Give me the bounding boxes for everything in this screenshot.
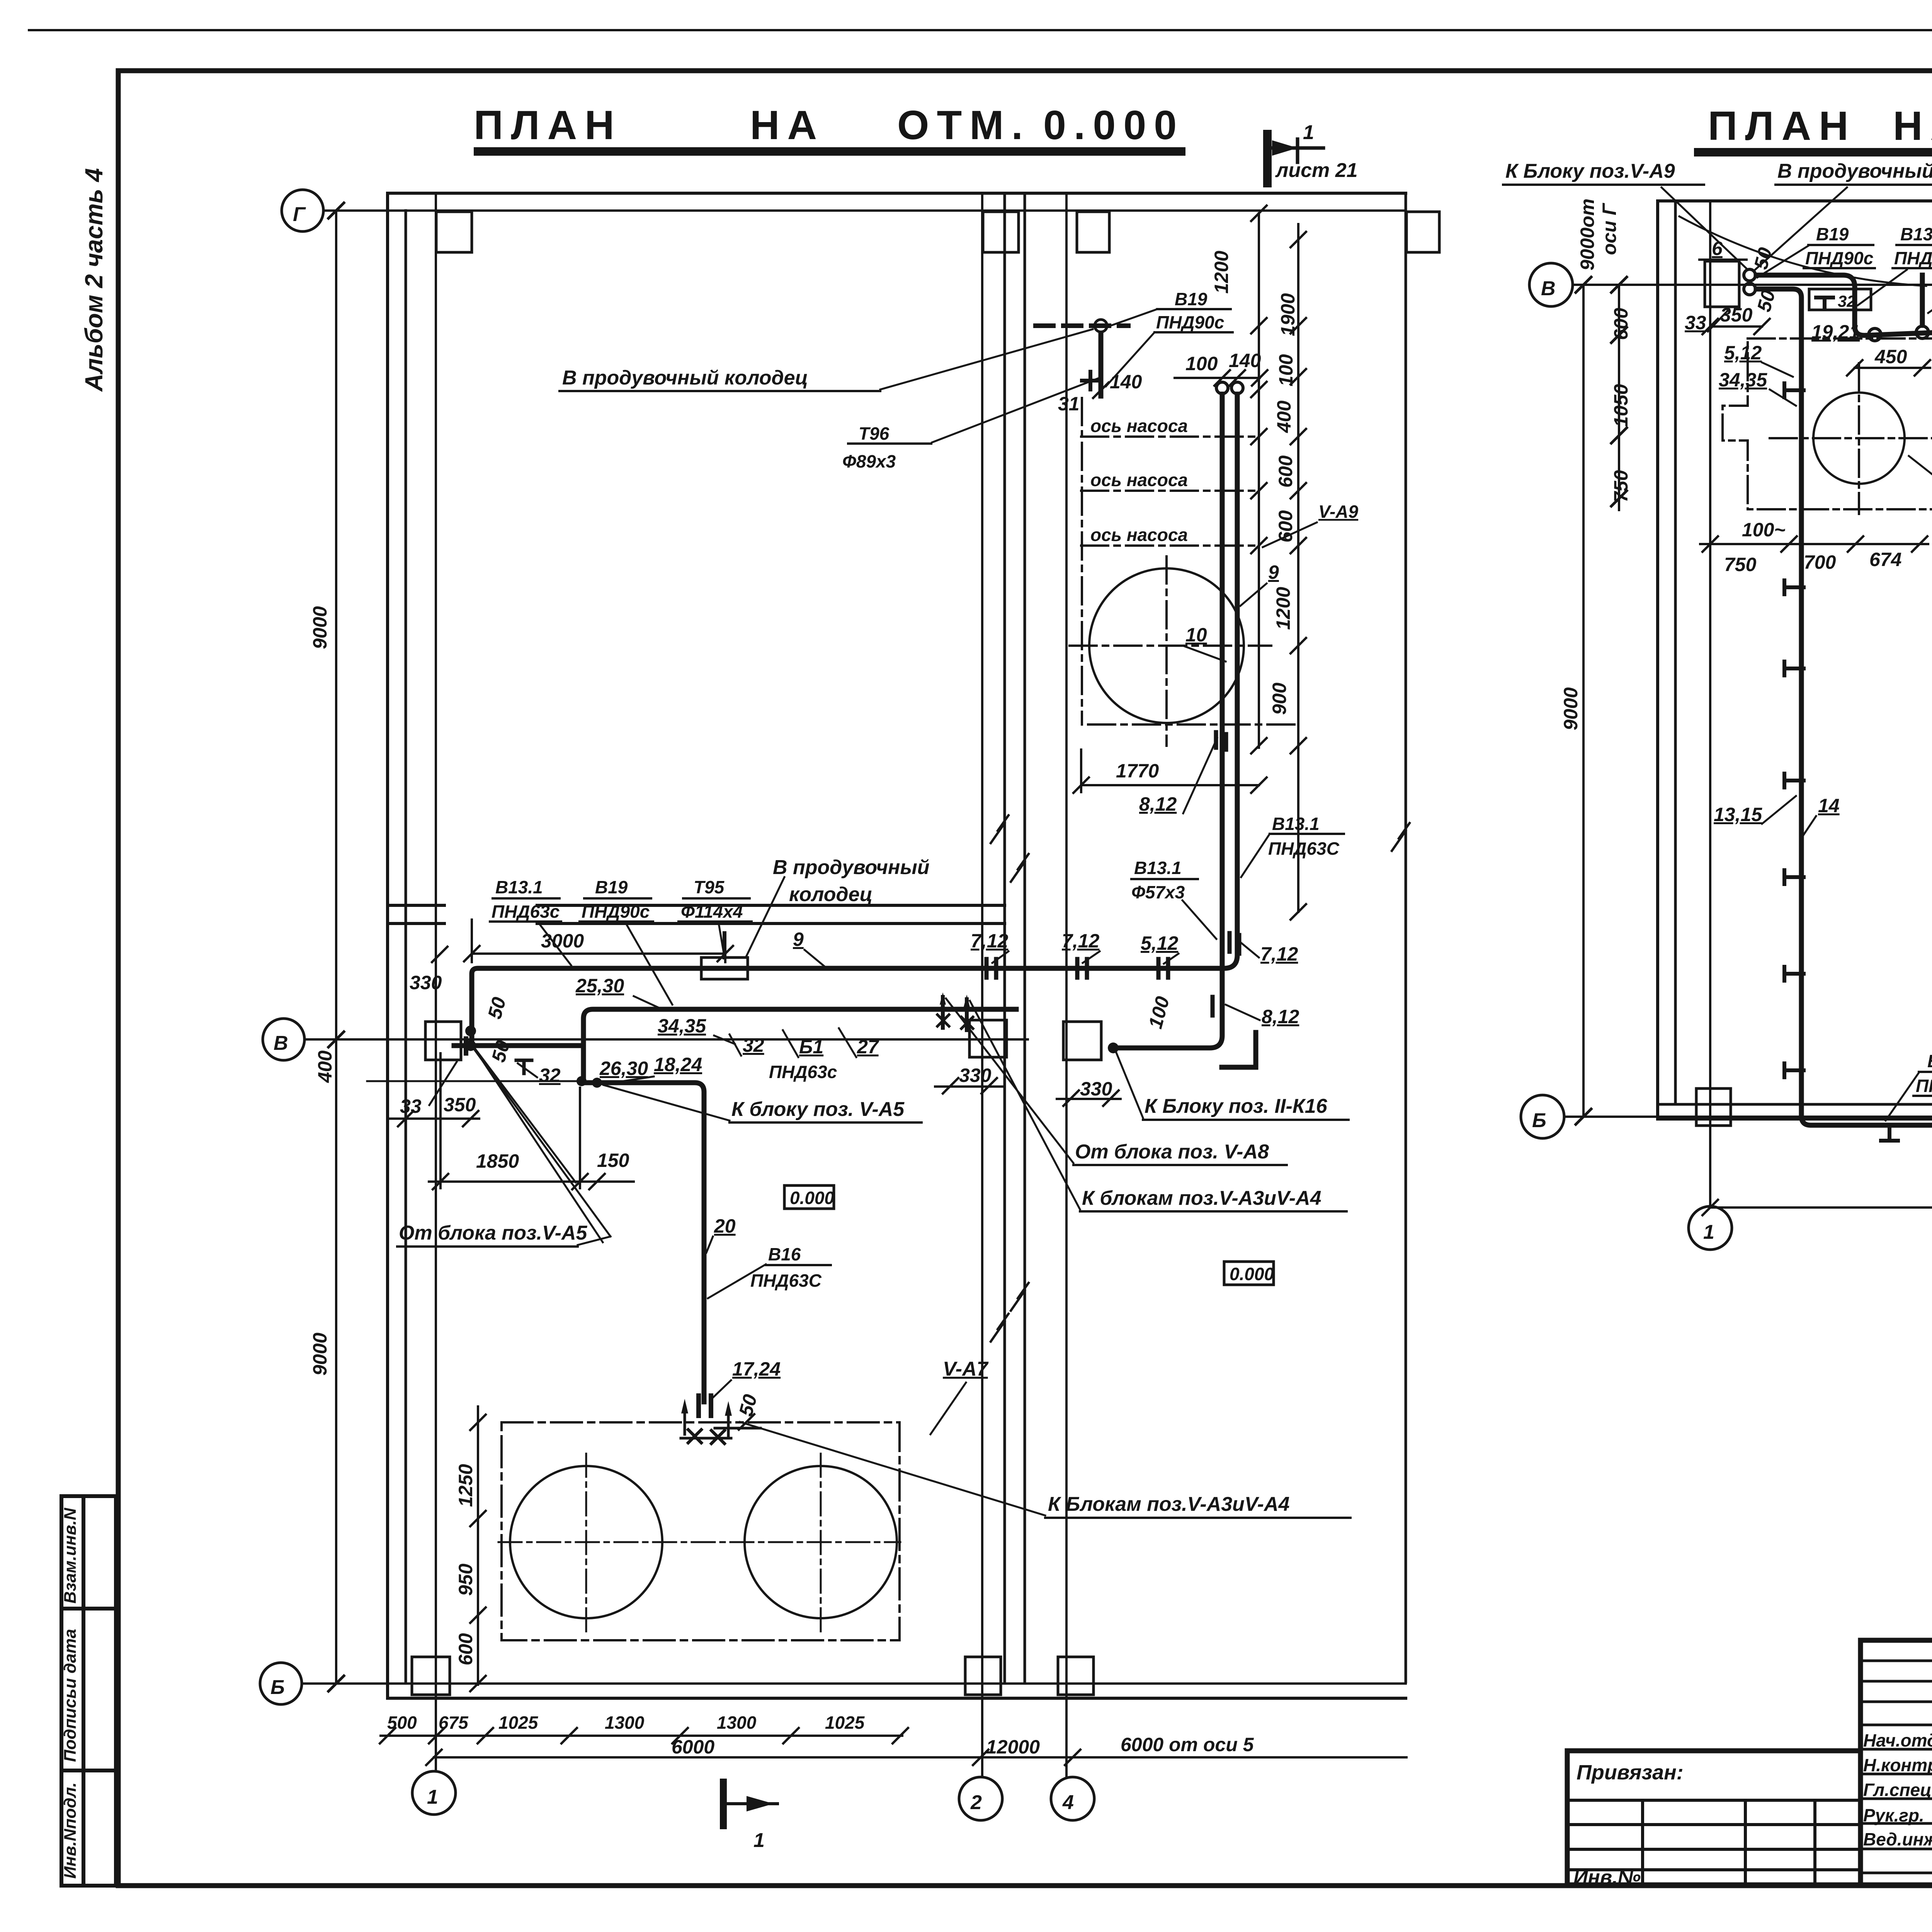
svg-text:26,30: 26,30 (599, 1058, 648, 1079)
svg-text:К блокам поз.V-А3иV-А4: К блокам поз.V-А3иV-А4 (1082, 1187, 1321, 1209)
svg-text:750: 750 (1724, 554, 1757, 575)
svg-text:5,12: 5,12 (1724, 342, 1762, 364)
axis Г line (323, 209, 1406, 212)
pump pipe support ticks (1216, 732, 1226, 750)
axis circle В (263, 1019, 304, 1060)
pump circle (1089, 568, 1244, 723)
svg-text:К Блокам поз.V-А3иV-А4: К Блокам поз.V-А3иV-А4 (1048, 1493, 1290, 1515)
svg-text:9000: 9000 (309, 1333, 331, 1376)
pump dim lines right (1251, 206, 1306, 920)
Т32 boxed symbol (1809, 289, 1871, 310)
svg-text:В продувочный колодец: В продувочный колодец (1777, 160, 1932, 182)
LEFT PLAN PLACEHOLDER (260, 190, 1439, 1852)
plan right edge (1405, 193, 1407, 1682)
svg-text:Н.контр.: Н.контр. (1863, 1755, 1932, 1775)
tank circles (510, 1466, 662, 1618)
svg-text:Инв.№: Инв.№ (1573, 1866, 1641, 1889)
svg-text:8,12: 8,12 (1262, 1006, 1299, 1027)
svg-text:330: 330 (959, 1065, 992, 1086)
supports on B14 vertical (1784, 383, 1804, 1077)
small Т mark (516, 1060, 532, 1073)
svg-text:150: 150 (597, 1150, 629, 1171)
9000 dim line В-Б (1582, 285, 1585, 1117)
left dim column 600/1050/750 (1618, 285, 1620, 510)
svg-text:18,24: 18,24 (654, 1054, 702, 1075)
svg-text:450: 450 (1874, 346, 1907, 367)
svg-text:Подписьи дата: Подписьи дата (61, 1629, 80, 1762)
signature table rows (1861, 1661, 1932, 1873)
svg-text:600: 600 (1610, 308, 1632, 340)
break marks (1392, 823, 1410, 851)
svg-text:ПЛАН: ПЛАН (1708, 103, 1856, 149)
6000 12000 bottom dim (1702, 1200, 1932, 1215)
axis Б line (1564, 1116, 1932, 1118)
svg-text:ПНД90с: ПНД90с (1156, 312, 1224, 332)
svg-text:ОТМ.: ОТМ. (897, 102, 1031, 148)
svg-text:7,12: 7,12 (971, 930, 1009, 952)
svg-text:Рук.гр.: Рук.гр. (1863, 1805, 1924, 1825)
svg-text:1: 1 (1303, 121, 1314, 144)
svg-text:Ф57х3: Ф57х3 (1131, 882, 1185, 902)
left wall (386, 193, 389, 1698)
columns В row (425, 1022, 461, 1060)
svg-text:Ф114х4: Ф114х4 (681, 901, 743, 922)
axis 1 vertical (435, 193, 437, 1770)
svg-text:1200: 1200 (1272, 587, 1294, 630)
svg-text:оси Г: оси Г (1599, 202, 1620, 255)
svg-text:9: 9 (793, 929, 804, 950)
svg-text:9000от: 9000от (1577, 199, 1598, 270)
top wall (388, 192, 1406, 195)
axis circle 4 (1051, 1777, 1094, 1820)
svg-text:13,15: 13,15 (1714, 804, 1762, 825)
axis circle В (1529, 263, 1573, 306)
svg-text:6: 6 (1712, 238, 1723, 259)
svg-text:К блоку поз. V-А5: К блоку поз. V-А5 (731, 1098, 905, 1121)
В16 bottom: arrows and х marks (681, 1406, 760, 1438)
svg-text:1300: 1300 (605, 1713, 645, 1733)
boiler V-А5 chain outline (1723, 338, 1932, 514)
svg-text:700: 700 (1804, 551, 1836, 573)
svg-text:1: 1 (753, 1829, 765, 1852)
svg-text:17,24: 17,24 (732, 1358, 781, 1380)
svg-text:НА: НА (1893, 103, 1932, 149)
svg-text:400: 400 (1273, 400, 1295, 433)
bottom wall (388, 1697, 1406, 1700)
svg-text:350: 350 (1720, 304, 1753, 326)
svg-text:Т96: Т96 (859, 423, 889, 444)
svg-text:Инв.Nподл.: Инв.Nподл. (61, 1782, 80, 1879)
pump axes dash-dot (1070, 398, 1298, 746)
svg-text:400: 400 (314, 1050, 336, 1083)
svg-text:В: В (1541, 277, 1556, 300)
svg-text:32: 32 (539, 1065, 561, 1086)
svg-text:ПНД63С: ПНД63С (1268, 838, 1340, 859)
svg-text:600: 600 (455, 1633, 476, 1665)
svg-text:1: 1 (427, 1786, 438, 1808)
axis 2 vertical (981, 193, 983, 1776)
svg-text:В продувочный колодец: В продувочный колодец (562, 367, 808, 389)
svg-text:ось насоса: ось насоса (1090, 470, 1188, 490)
0.000 box 2 (1224, 1262, 1274, 1285)
svg-text:В: В (274, 1032, 288, 1054)
stamp outer (1861, 1640, 1932, 1885)
svg-text:ПНД63С: ПНД63С (750, 1270, 822, 1291)
svg-text:Б: Б (1532, 1109, 1546, 1132)
svg-text:9000: 9000 (309, 606, 331, 649)
axis В line (1573, 284, 1932, 286)
svg-text:10: 10 (1185, 624, 1207, 646)
svg-text:ПНД63С: ПНД63С (1894, 248, 1932, 268)
svg-text:0.000: 0.000 (1043, 102, 1184, 148)
valve arrows to upper blocks (943, 997, 967, 1030)
pipe H0 (454, 1043, 583, 1048)
svg-text:1300: 1300 (717, 1713, 757, 1733)
svg-text:Гл.спец.: Гл.спец. (1863, 1780, 1932, 1800)
svg-text:В13.1: В13.1 (1272, 814, 1320, 834)
left margin stamp boxes (61, 1496, 116, 1886)
top wall (1658, 199, 1932, 202)
pipe H4 + V3 (В16) (582, 1083, 704, 1402)
svg-text:900: 900 (1269, 682, 1290, 715)
svg-text:V-А9: V-А9 (1318, 502, 1359, 522)
svg-text:675: 675 (439, 1713, 469, 1733)
svg-text:ПНД63с: ПНД63с (769, 1062, 837, 1082)
svg-text:32: 32 (1838, 292, 1856, 310)
pipe fittings circles (1744, 269, 1755, 281)
junction dots V2 (577, 1076, 587, 1086)
svg-text:НА: НА (750, 102, 825, 148)
svg-text:ПЛАН: ПЛАН (474, 102, 622, 148)
svg-text:1025: 1025 (498, 1713, 539, 1733)
svg-text:34,35: 34,35 (658, 1015, 706, 1037)
svg-text:В13.1: В13.1 (1900, 224, 1932, 244)
svg-text:Т95: Т95 (694, 877, 725, 897)
bottom wall double (1658, 1103, 1932, 1106)
svg-text:140: 140 (1110, 371, 1142, 393)
support ticks on H1 (986, 959, 996, 978)
tank chain rect (502, 1422, 900, 1640)
svg-text:ПНД63с: ПНД63с (492, 901, 560, 922)
svg-text:ось насоса: ось насоса (1090, 416, 1188, 436)
svg-text:Нач.отд.: Нач.отд. (1863, 1730, 1932, 1750)
axis circle 2 (959, 1777, 1002, 1820)
svg-text:2: 2 (970, 1791, 982, 1814)
svg-text:В19: В19 (595, 877, 628, 897)
main pipe H1 (472, 968, 1213, 1043)
axis circle 1 (1689, 1206, 1732, 1250)
left 9000 dim line (335, 211, 337, 1684)
svg-text:лист 21: лист 21 (1275, 159, 1358, 182)
pump riser pipes (9 / 10) (1216, 382, 1228, 394)
svg-text:В14: В14 (1927, 1051, 1932, 1071)
riser dot at column (1108, 1043, 1119, 1053)
svg-text:ПНД90С: ПНД90С (1916, 1076, 1932, 1096)
svg-text:7,12: 7,12 (1260, 943, 1298, 965)
svg-text:950: 950 (455, 1563, 476, 1596)
svg-text:33: 33 (1685, 312, 1706, 333)
svg-text:5,12: 5,12 (1141, 932, 1179, 954)
svg-text:34,35: 34,35 (1719, 369, 1767, 391)
svg-text:1850: 1850 (476, 1150, 519, 1172)
svg-text:0.000: 0.000 (790, 1188, 835, 1208)
junction dot В axis (465, 1026, 476, 1036)
svg-text:6000: 6000 (672, 1736, 714, 1758)
bottom section mark (720, 1782, 727, 1826)
support ticks on left pump pipe (1213, 997, 1222, 1017)
svg-text:К Блоку поз.V-А9: К Блоку поз.V-А9 (1505, 160, 1675, 182)
svg-text:27: 27 (857, 1036, 879, 1058)
svg-text:колодец: колодец (789, 883, 872, 906)
svg-text:674: 674 (1869, 549, 1901, 570)
axis В line (304, 1038, 1028, 1041)
axis circle Б (260, 1663, 302, 1704)
axis circle 1 (412, 1771, 456, 1815)
pipe B14 long run (1756, 289, 1932, 1125)
short riser with circles (1920, 275, 1925, 325)
svg-text:От блока поз. V-А8: От блока поз. V-А8 (1075, 1141, 1269, 1163)
svg-text:ось насоса: ось насоса (1090, 525, 1188, 545)
axis 4 vertical (1065, 193, 1068, 1776)
svg-text:600: 600 (1275, 455, 1296, 488)
columns Б row (412, 1657, 450, 1695)
TITLE BLOCK PLACEHOLDER (1567, 1640, 1932, 1923)
svg-text:В13.1: В13.1 (1134, 858, 1182, 878)
svg-text:350: 350 (444, 1094, 476, 1116)
svg-text:20: 20 (714, 1215, 736, 1237)
svg-text:14: 14 (1818, 795, 1840, 816)
svg-text:1770: 1770 (1116, 760, 1159, 782)
annex Привязан box (1567, 1751, 1861, 1885)
0.000 box 1 (784, 1185, 834, 1209)
axis circle Б (1521, 1095, 1564, 1138)
svg-text:31: 31 (1058, 393, 1080, 415)
1770 dim (1073, 750, 1267, 793)
1250 950 600 dims (470, 1406, 486, 1691)
svg-text:100~: 100~ (1742, 519, 1786, 541)
svg-text:В19: В19 (1175, 289, 1207, 309)
svg-text:В13.1: В13.1 (495, 877, 543, 897)
В19 dashed pipe to blowdown well (1036, 323, 1128, 328)
svg-text:1025: 1025 (825, 1713, 865, 1733)
support ticks on pump pipe right (1230, 933, 1239, 954)
1850 150 dims (429, 1053, 634, 1189)
bottom dim chain (380, 1728, 908, 1743)
svg-text:В продувочный: В продувочный (773, 856, 930, 879)
svg-text:1200: 1200 (1211, 251, 1232, 294)
svg-text:6000 от оси 5: 6000 от оси 5 (1121, 1734, 1254, 1755)
divider wall (1003, 193, 1006, 1682)
svg-text:Привязан:: Привязан: (1577, 1761, 1684, 1784)
svg-text:1250: 1250 (455, 1464, 476, 1507)
svg-text:От блока поз.V-А5: От блока поз.V-А5 (399, 1222, 588, 1244)
svg-text:Альбом 2 часть 4: Альбом 2 часть 4 (80, 168, 108, 392)
leader curves from labels (1679, 216, 1926, 286)
dim 450 (1847, 360, 1930, 376)
svg-text:100: 100 (1185, 353, 1218, 374)
svg-text:25,30: 25,30 (575, 975, 624, 997)
svg-text:32: 32 (743, 1034, 764, 1056)
pipe B19/B13.1 thick top (1756, 275, 1932, 350)
left wall double (1656, 201, 1659, 1119)
axis circle Г (282, 190, 323, 231)
svg-text:9: 9 (1268, 561, 1279, 583)
svg-text:ПНД90с: ПНД90с (582, 901, 650, 922)
axis Б line (302, 1682, 1406, 1685)
svg-text:750: 750 (1610, 470, 1632, 502)
svg-text:Б1: Б1 (799, 1036, 823, 1058)
svg-text:ПНД90с: ПНД90с (1805, 248, 1873, 268)
svg-text:В16: В16 (768, 1244, 801, 1264)
svg-text:500: 500 (387, 1713, 417, 1733)
svg-text:0.000: 0.000 (1230, 1264, 1274, 1284)
svg-text:1900: 1900 (1277, 293, 1299, 336)
pipe H3 + V2 (583, 1009, 1016, 1080)
svg-text:12000: 12000 (986, 1736, 1040, 1758)
svg-text:Г: Г (293, 203, 306, 226)
svg-text:330: 330 (1080, 1078, 1112, 1100)
svg-text:В19: В19 (1816, 224, 1849, 244)
svg-text:9000: 9000 (1560, 687, 1582, 730)
corner continuation symbol (1222, 1032, 1256, 1067)
supports under bottom run (1881, 1125, 1932, 1141)
svg-text:8,12: 8,12 (1139, 793, 1177, 815)
room bottom wall (388, 905, 1005, 923)
svg-text:100: 100 (1275, 354, 1297, 386)
6000 12000 dim line (426, 1750, 1406, 1765)
svg-text:1: 1 (1703, 1221, 1714, 1243)
RIGHT PLAN PLACEHOLDER (1503, 160, 1932, 1287)
3000 dim (464, 920, 733, 962)
svg-text:К Блоку поз. II-К16: К Блоку поз. II-К16 (1145, 1095, 1328, 1117)
svg-text:Взам.инв.N: Взам.инв.N (61, 1507, 80, 1604)
svg-text:Ф89х3: Ф89х3 (842, 451, 896, 471)
svg-text:4: 4 (1062, 1791, 1074, 1814)
left plan section mark (1, лист 21) (1267, 134, 1323, 183)
axis 1 vertical (1709, 201, 1711, 1206)
columns (1696, 261, 1932, 1126)
svg-text:7,12: 7,12 (1062, 930, 1100, 952)
T95 tee symbol on H1 (701, 957, 748, 979)
columns top row (412, 212, 1439, 1695)
boiler V-А5 circle (1813, 393, 1905, 484)
svg-text:Вед.инж: Вед.инж (1863, 1829, 1932, 1849)
svg-text:V-А7: V-А7 (943, 1358, 989, 1380)
reference line of pipe row (367, 1080, 582, 1082)
svg-text:Б: Б (270, 1676, 285, 1699)
svg-text:140: 140 (1229, 350, 1261, 371)
svg-text:1050: 1050 (1610, 384, 1632, 427)
svg-text:330: 330 (410, 972, 442, 993)
